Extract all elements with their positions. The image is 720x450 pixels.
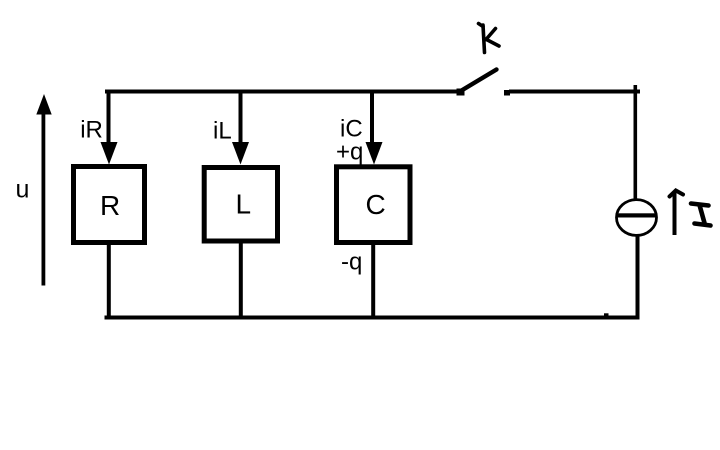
- svg-text:C: C: [366, 189, 386, 220]
- svg-text:L: L: [236, 189, 252, 220]
- svg-text:+q: +q: [336, 139, 363, 166]
- svg-text:iL: iL: [213, 118, 232, 145]
- svg-text:R: R: [100, 190, 120, 221]
- svg-text:u: u: [16, 176, 30, 204]
- svg-text:-q: -q: [341, 249, 362, 276]
- svg-text:iR: iR: [80, 117, 103, 144]
